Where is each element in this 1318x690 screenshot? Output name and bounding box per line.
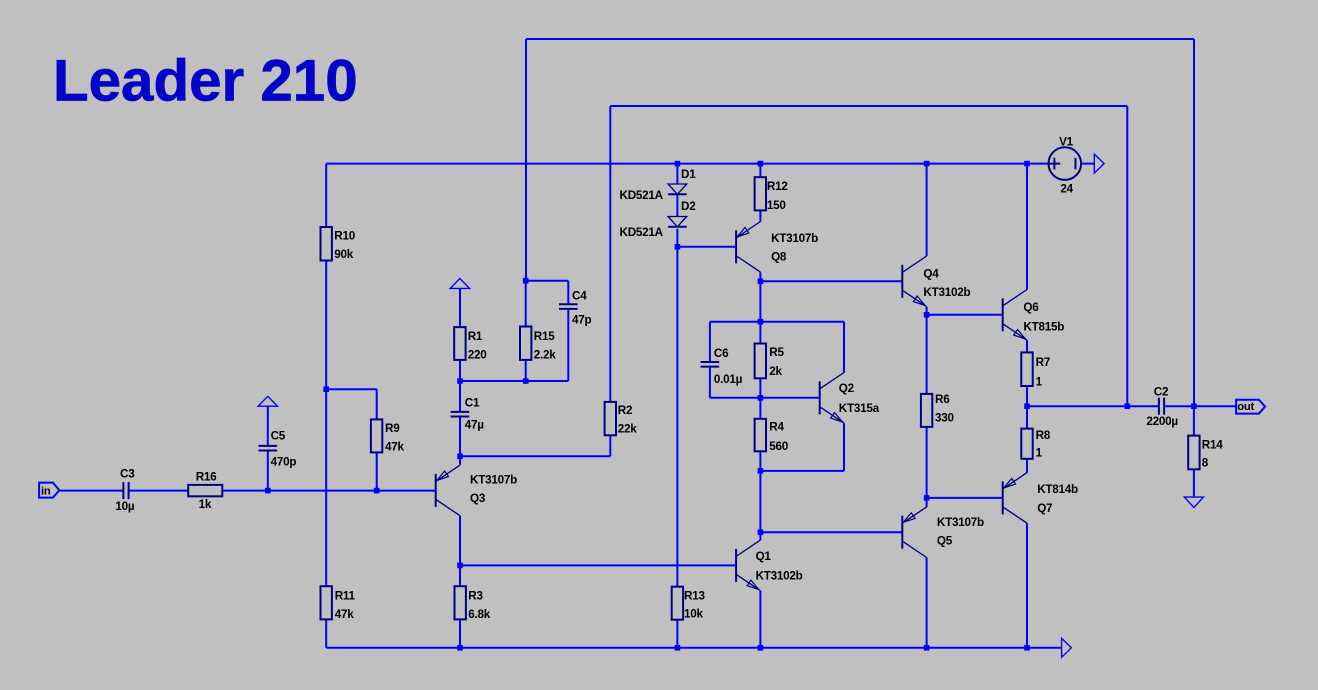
- svg-text:C4: C4: [572, 289, 587, 302]
- svg-text:47k: 47k: [335, 608, 355, 621]
- svg-text:1: 1: [1036, 446, 1043, 459]
- svg-text:220: 220: [468, 349, 488, 362]
- svg-text:R10: R10: [334, 229, 355, 242]
- svg-text:Q4: Q4: [923, 267, 939, 280]
- svg-text:R14: R14: [1202, 439, 1223, 452]
- svg-text:C2: C2: [1154, 386, 1169, 399]
- svg-text:R7: R7: [1036, 356, 1050, 369]
- svg-text:Leader 210: Leader 210: [53, 49, 358, 114]
- svg-text:KD521A: KD521A: [620, 189, 664, 202]
- svg-text:KT315a: KT315a: [839, 402, 880, 415]
- svg-text:47k: 47k: [385, 441, 405, 454]
- svg-text:R4: R4: [769, 421, 784, 434]
- svg-text:1: 1: [1036, 375, 1043, 388]
- svg-text:560: 560: [769, 440, 789, 453]
- svg-text:0.01µ: 0.01µ: [714, 373, 743, 386]
- svg-text:R11: R11: [335, 589, 356, 602]
- svg-text:R3: R3: [468, 589, 483, 602]
- svg-text:R13: R13: [684, 589, 705, 602]
- svg-text:KT3107b: KT3107b: [771, 232, 818, 245]
- svg-text:47µ: 47µ: [465, 419, 485, 432]
- svg-text:24: 24: [1060, 182, 1073, 195]
- svg-text:R16: R16: [196, 471, 217, 484]
- svg-text:R9: R9: [385, 422, 400, 435]
- svg-text:out: out: [1237, 401, 1254, 413]
- svg-text:R12: R12: [767, 180, 788, 193]
- svg-text:R5: R5: [769, 346, 784, 359]
- svg-text:330: 330: [935, 412, 955, 425]
- svg-text:R8: R8: [1036, 429, 1051, 442]
- svg-text:V1: V1: [1059, 136, 1074, 149]
- svg-text:Q7: Q7: [1037, 502, 1052, 515]
- svg-text:R15: R15: [534, 330, 555, 343]
- svg-text:10µ: 10µ: [115, 500, 135, 513]
- svg-text:KT815b: KT815b: [1023, 320, 1064, 333]
- svg-text:Q1: Q1: [756, 550, 772, 563]
- svg-text:KT814b: KT814b: [1037, 483, 1078, 496]
- svg-text:R6: R6: [935, 393, 950, 406]
- svg-text:1k: 1k: [199, 498, 212, 511]
- svg-text:R2: R2: [618, 404, 633, 417]
- svg-text:KT3102b: KT3102b: [756, 570, 803, 583]
- svg-text:Q3: Q3: [470, 492, 486, 505]
- svg-text:8: 8: [1202, 456, 1209, 469]
- svg-text:C3: C3: [120, 467, 135, 480]
- svg-text:10k: 10k: [684, 607, 704, 620]
- svg-text:C5: C5: [271, 429, 286, 442]
- svg-text:Q8: Q8: [771, 251, 787, 264]
- svg-text:22k: 22k: [618, 423, 638, 436]
- svg-text:Q2: Q2: [839, 382, 855, 395]
- svg-text:KD521A: KD521A: [620, 226, 664, 239]
- svg-text:KT3107b: KT3107b: [937, 516, 984, 529]
- svg-text:KT3102b: KT3102b: [923, 286, 970, 299]
- svg-text:D1: D1: [681, 168, 696, 181]
- svg-text:2.2k: 2.2k: [534, 349, 556, 362]
- svg-text:in: in: [41, 486, 51, 498]
- svg-text:470p: 470p: [271, 455, 297, 468]
- svg-text:2k: 2k: [769, 365, 782, 378]
- svg-text:150: 150: [767, 199, 787, 212]
- svg-text:D2: D2: [681, 200, 696, 213]
- svg-text:90k: 90k: [334, 248, 354, 261]
- svg-text:Q5: Q5: [937, 535, 953, 548]
- svg-text:KT3107b: KT3107b: [470, 474, 517, 487]
- svg-text:47p: 47p: [572, 314, 592, 327]
- svg-text:6.8k: 6.8k: [468, 608, 490, 621]
- svg-text:C1: C1: [465, 397, 480, 410]
- svg-text:R1: R1: [468, 330, 483, 343]
- svg-text:C6: C6: [714, 347, 729, 360]
- svg-text:Q6: Q6: [1023, 301, 1039, 314]
- svg-text:2200µ: 2200µ: [1146, 415, 1178, 428]
